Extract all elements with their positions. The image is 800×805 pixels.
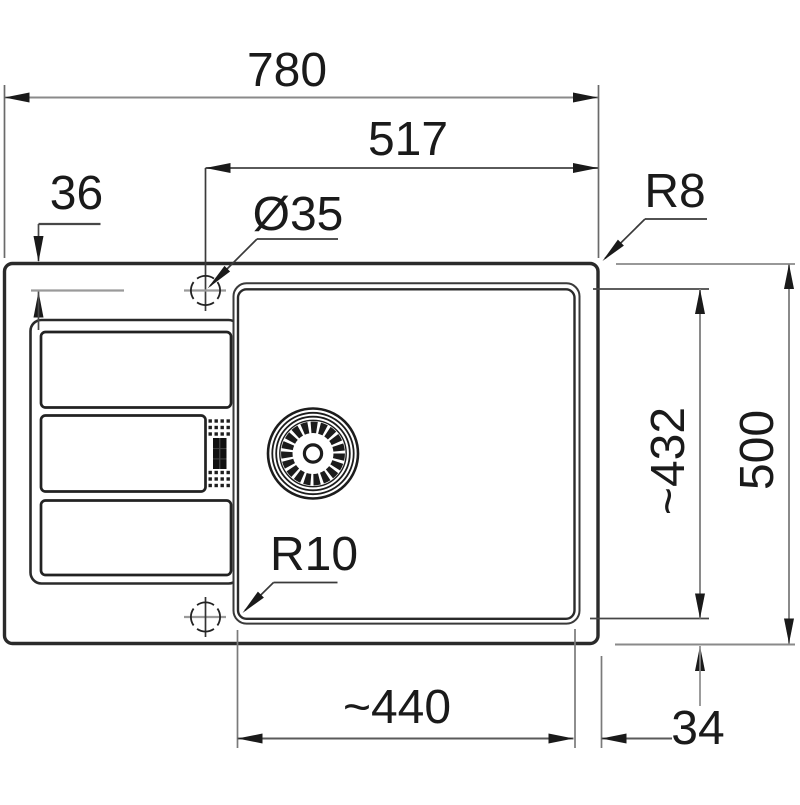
drainer slot 3 (bottom) — [41, 501, 231, 576]
svg-text:36: 36 — [50, 167, 103, 220]
bowl inner edge (R10) — [238, 289, 575, 619]
svg-text:Ø35: Ø35 — [253, 188, 344, 241]
Ø35 label + leader to tap hole — [208, 188, 344, 289]
svg-text:500: 500 — [731, 410, 784, 490]
svg-text:R10: R10 — [270, 528, 358, 581]
tap hole bottom crosshair — [184, 597, 226, 637]
36 dimension (top edge to tap centreline) — [34, 167, 104, 330]
bowl outer rim — [234, 283, 580, 623]
overflow grille centre block — [213, 438, 227, 469]
svg-text:517: 517 — [368, 113, 448, 166]
svg-text:~440: ~440 — [343, 681, 451, 734]
R10 label + leader to bowl inner corner — [243, 528, 359, 613]
500 dimension (overall depth) — [615, 264, 795, 645]
~432 dimension (bowl inner height) — [590, 289, 709, 619]
svg-text:34: 34 — [671, 702, 724, 755]
34 dimension (horizontal gap, bowl right to sink right) — [602, 656, 673, 748]
svg-text:R8: R8 — [644, 165, 705, 218]
drain / waste assembly — [268, 409, 358, 499]
drainer slot 2 (middle) — [41, 416, 206, 492]
drainer ledge outline — [31, 320, 240, 584]
R8 label + leader to sink top-right corner — [603, 165, 708, 261]
~440 dimension (bowl inner width) — [238, 629, 576, 748]
780 dimension (top overall width) — [5, 44, 599, 258]
517 dimension (tap hole centre to right edge) — [206, 113, 599, 311]
svg-text:780: 780 — [247, 44, 327, 97]
drainer slot 1 (top) — [41, 332, 231, 408]
overflow grille dot pattern — [209, 419, 230, 487]
34 dimension (vertical gap, bowl bottom to sink bottom) — [671, 646, 724, 755]
sink outer body (780x500, R8 corners) — [5, 264, 599, 644]
svg-text:~432: ~432 — [642, 407, 695, 515]
tap hole top (Ø35) crosshair — [31, 276, 226, 305]
